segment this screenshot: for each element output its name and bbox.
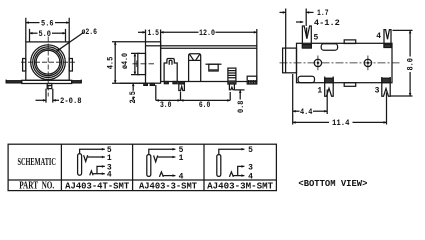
svg-text:3: 3 — [107, 163, 112, 172]
schematic 2 wire pin5 — [149, 149, 176, 155]
mounting hole right — [364, 59, 371, 66]
svg-text:1.5: 1.5 — [147, 28, 159, 38]
dim 2.5 — [120, 82, 146, 84]
left side tab — [23, 59, 26, 72]
dim 5.0 — [30, 32, 38, 34]
side view front flange — [146, 42, 161, 83]
svg-text:3: 3 — [248, 163, 253, 172]
top pad 1 — [321, 44, 337, 50]
dim 8.0 — [409, 30, 411, 56]
svg-text:4: 4 — [376, 32, 381, 41]
right contact pin — [229, 84, 234, 90]
ring contact block — [189, 54, 201, 82]
svg-text:2.5: 2.5 — [128, 91, 138, 104]
svg-text:1: 1 — [317, 86, 322, 95]
schematic 3 switch caret — [229, 172, 233, 177]
svg-text:5.6: 5.6 — [41, 18, 54, 28]
front view body — [26, 42, 69, 80]
svg-text:0.8: 0.8 — [236, 101, 246, 114]
svg-text:4.5: 4.5 — [105, 57, 115, 70]
table row divider — [8, 179, 276, 181]
svg-text:AJ403-3M-SMT: AJ403-3M-SMT — [207, 182, 274, 192]
schematic 1 wire pin3 — [97, 166, 105, 173]
svg-text:ø2.6: ø2.6 — [82, 27, 98, 37]
dim 8.0 extension lines — [391, 30, 413, 96]
svg-text:4.4: 4.4 — [300, 107, 313, 117]
svg-text:4: 4 — [248, 173, 253, 182]
svg-text:5: 5 — [313, 34, 318, 43]
svg-text:5: 5 — [248, 146, 253, 155]
schematic 2 sleeve — [147, 155, 151, 177]
small window tab — [206, 63, 222, 65]
schematic 3 wire pin5 — [219, 149, 245, 155]
svg-text:<BOTTOM VIEW>: <BOTTOM VIEW> — [298, 178, 367, 189]
svg-text:3: 3 — [375, 86, 380, 95]
right wing pad — [72, 81, 82, 83]
dim 5.0 extension lines — [30, 29, 66, 42]
schematic 1 tip contact V — [84, 155, 88, 161]
side view main body — [161, 46, 257, 82]
dim 12.0 — [256, 29, 258, 46]
pin 5 prong — [302, 26, 311, 48]
right end pad — [247, 76, 257, 84]
vertical centerline — [47, 37, 49, 97]
body top line across flange — [146, 45, 161, 47]
bottom flange — [22, 80, 72, 83]
schematic 1 wire pin1 — [88, 156, 105, 158]
bottom pad 2 — [344, 83, 356, 87]
schematic 1 wire pin5 — [80, 149, 105, 154]
dim 3.0 — [156, 85, 181, 100]
left protrusion — [283, 48, 297, 73]
right side tab — [69, 59, 72, 72]
svg-text:4-1.2: 4-1.2 — [314, 18, 340, 28]
jack opening circles — [31, 45, 66, 80]
schematic 3 wire pin4 — [233, 175, 244, 177]
svg-text:SCHEMATIC: SCHEMATIC — [17, 157, 56, 168]
leader line dia 2.6 — [57, 33, 84, 52]
svg-text:AJ403-4T-SMT: AJ403-4T-SMT — [65, 182, 130, 192]
dim 5.6 extension lines — [26, 18, 69, 42]
side view centerline — [133, 63, 155, 65]
dim 6.0 — [229, 92, 231, 100]
center pin (front) — [47, 84, 52, 89]
dim 2-0.8 extension lines — [46, 89, 53, 103]
svg-text:PART NO.: PART NO. — [19, 180, 54, 191]
schematic 3 sleeve — [217, 155, 221, 177]
dim 5.6 — [26, 22, 40, 24]
bottom pad 1 — [298, 76, 314, 82]
schematic 1 wire pin4 — [93, 173, 105, 175]
foot under flange — [144, 83, 148, 85]
dim 4.4 extension lines — [293, 74, 328, 125]
dim 4.4 — [293, 110, 300, 112]
side view barrel — [138, 53, 146, 74]
schematic 2 wire pin4 — [163, 175, 175, 177]
svg-text:4: 4 — [179, 173, 184, 182]
svg-text:12.0: 12.0 — [199, 28, 215, 38]
svg-text:1: 1 — [179, 154, 184, 163]
right contact — [228, 68, 236, 84]
pin 3 prong — [382, 77, 390, 96]
svg-text:1.7: 1.7 — [317, 8, 329, 18]
mounting hole left — [314, 59, 321, 66]
dim dia 4.0 — [131, 53, 140, 74]
dim 0.8 — [235, 89, 245, 91]
schematic 1 switch caret — [90, 171, 93, 175]
svg-text:ø4.0: ø4.0 — [120, 53, 130, 69]
body inner top line — [161, 47, 257, 49]
schematic 2 switch caret — [159, 172, 163, 177]
pin 4 prong — [384, 30, 391, 48]
schematic 3 wire pin3 — [238, 166, 245, 175]
top pad 2 — [344, 40, 356, 44]
bottom view body — [297, 43, 393, 82]
svg-text:11.4: 11.4 — [332, 118, 350, 128]
dim 1.7 — [280, 11, 286, 13]
dim 11.4 — [293, 121, 329, 123]
schematic 2 tip contact V — [154, 155, 158, 161]
svg-text:5.0: 5.0 — [38, 29, 51, 39]
tip contact — [164, 59, 177, 82]
table column dividers — [61, 144, 204, 190]
table outer border — [8, 144, 276, 190]
svg-text:2-0.8: 2-0.8 — [60, 96, 82, 106]
dim 4.5 — [112, 42, 146, 83]
pin 1 fork (side) — [179, 82, 185, 91]
svg-text:8.0: 8.0 — [406, 58, 416, 71]
left wing pad — [6, 81, 22, 83]
dim 1.5 — [146, 30, 161, 46]
dim 1.7 extension lines — [286, 9, 307, 49]
dim 11.4 extension lines — [386, 93, 388, 125]
horizontal centerline — [280, 62, 401, 64]
svg-text:6.0: 6.0 — [199, 100, 211, 110]
svg-text:1: 1 — [107, 154, 112, 163]
schematic 2 wire pin1 — [158, 156, 176, 158]
schematic 1 sleeve — [78, 154, 82, 175]
dim 2-0.8 arrows — [36, 99, 46, 101]
dim 4-1.2 — [296, 21, 303, 23]
horizontal centerline — [21, 61, 76, 63]
svg-text:AJ403-3-SMT: AJ403-3-SMT — [139, 182, 198, 192]
pin 1 prong — [325, 77, 334, 97]
svg-text:3.0: 3.0 — [160, 100, 172, 110]
